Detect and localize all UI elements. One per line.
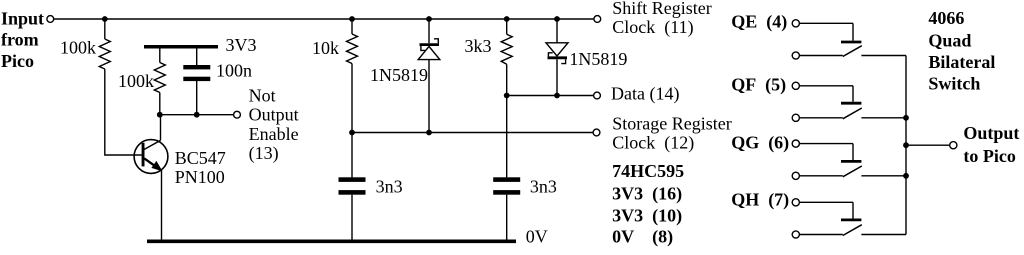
svg-text:0V (8): 0V (8) [612, 227, 673, 248]
terminal not-output-enable circle [234, 111, 241, 118]
node junction top 10k [349, 16, 355, 22]
node junction storage D1 [426, 130, 432, 136]
node junction storage 10k [349, 130, 355, 136]
wire not-output-enable [160, 114, 234, 116]
svg-text:Quad: Quad [928, 30, 971, 50]
svg-text:100k: 100k [118, 71, 154, 91]
node junction top D2 [554, 16, 560, 22]
svg-text:Not: Not [249, 85, 276, 105]
terminal data circle [594, 92, 601, 99]
terminal output circle [950, 142, 957, 149]
node junction top A [102, 16, 108, 22]
node junction bus output [903, 142, 909, 148]
svg-text:0V: 0V [526, 226, 548, 246]
resistor R3 10k [347, 19, 358, 133]
svg-text:Storage Register: Storage Register [612, 113, 731, 133]
svg-text:to Pico: to Pico [963, 146, 1015, 166]
svg-text:QH (7): QH (7) [731, 189, 789, 210]
switch QH [792, 199, 906, 238]
wire output to pico [906, 144, 950, 146]
switch QE [792, 20, 906, 59]
svg-text:1N5819: 1N5819 [569, 49, 627, 69]
svg-text:Enable: Enable [249, 124, 299, 144]
svg-text:10k: 10k [312, 38, 339, 58]
wire data [507, 95, 594, 97]
node junction top D1 [426, 16, 432, 22]
node junction R2 bottom [157, 112, 163, 118]
svg-text:74HC595: 74HC595 [612, 161, 684, 181]
svg-text:PN100: PN100 [175, 167, 225, 187]
svg-text:3V3 (16): 3V3 (16) [612, 183, 682, 204]
switch QG [792, 140, 906, 179]
node junction data D2 [554, 93, 560, 99]
svg-text:Clock (11): Clock (11) [612, 17, 693, 38]
capacitor C1 100n [183, 48, 210, 115]
diode D1 1N5819 [418, 19, 440, 133]
ground rail 0V [147, 240, 516, 244]
wire base column [105, 69, 142, 155]
svg-text:QG (6): QG (6) [731, 132, 789, 153]
node junction C1 bottom [194, 112, 200, 118]
power rail 3V3 [144, 45, 218, 49]
svg-text:(13): (13) [249, 143, 279, 164]
wire storage register clock [352, 132, 593, 134]
svg-text:1N5819: 1N5819 [370, 65, 428, 85]
svg-text:Input: Input [1, 8, 44, 28]
label Output to Pico [963, 123, 1019, 166]
svg-text:Switch: Switch [928, 74, 980, 94]
capacitor C3 3n3 [493, 96, 520, 242]
label Shift Register Clock (11) [612, 0, 712, 38]
label 74HC595 pins [612, 161, 684, 248]
switch QF [792, 82, 906, 121]
svg-text:Bilateral: Bilateral [928, 52, 995, 72]
transistor Q1 BC547 [134, 115, 168, 241]
label 4066 Quad Bilateral Switch [928, 8, 995, 94]
resistor R2 100k [154, 48, 165, 115]
wire output bus [905, 56, 907, 235]
label Q1 BC547 PN100 [175, 148, 226, 187]
resistor R4 3k3 [501, 19, 512, 96]
terminal input circle [47, 16, 54, 23]
svg-text:Output: Output [249, 104, 299, 124]
svg-text:100n: 100n [216, 61, 252, 81]
svg-text:Shift Register: Shift Register [612, 0, 712, 18]
svg-text:Pico: Pico [1, 51, 34, 71]
node junction top 3k3 [504, 16, 510, 22]
svg-text:from: from [1, 29, 39, 49]
svg-text:QE (4): QE (4) [731, 11, 787, 32]
diode D2 1N5819 [546, 19, 568, 96]
wire top rail (shift register clock) [54, 18, 594, 20]
node junction data 3k3 [504, 93, 510, 99]
capacitor C2 3n3 [339, 133, 366, 242]
svg-text:3V3: 3V3 [226, 35, 257, 55]
svg-text:100k: 100k [60, 38, 96, 58]
svg-text:3V3 (10): 3V3 (10) [612, 205, 682, 226]
label Storage Register Clock (12) [612, 113, 731, 153]
svg-text:BC547: BC547 [175, 148, 226, 168]
resistor R1 100k [99, 19, 110, 69]
node junction bus QG [903, 173, 909, 179]
label Input from Pico [1, 8, 44, 70]
node junction bus QF [903, 115, 909, 121]
label Not Output Enable (13) [249, 85, 299, 164]
terminal shift register clock circle [594, 16, 601, 23]
svg-text:Data (14): Data (14) [611, 84, 679, 105]
svg-text:3n3: 3n3 [530, 177, 557, 197]
svg-text:3n3: 3n3 [376, 177, 403, 197]
svg-text:3k3: 3k3 [465, 36, 492, 56]
terminal storage register clock circle [593, 129, 600, 136]
svg-text:QF (5): QF (5) [731, 75, 786, 96]
svg-text:Clock (12): Clock (12) [612, 133, 694, 154]
svg-text:Output: Output [963, 123, 1019, 143]
svg-text:4066: 4066 [928, 8, 964, 28]
